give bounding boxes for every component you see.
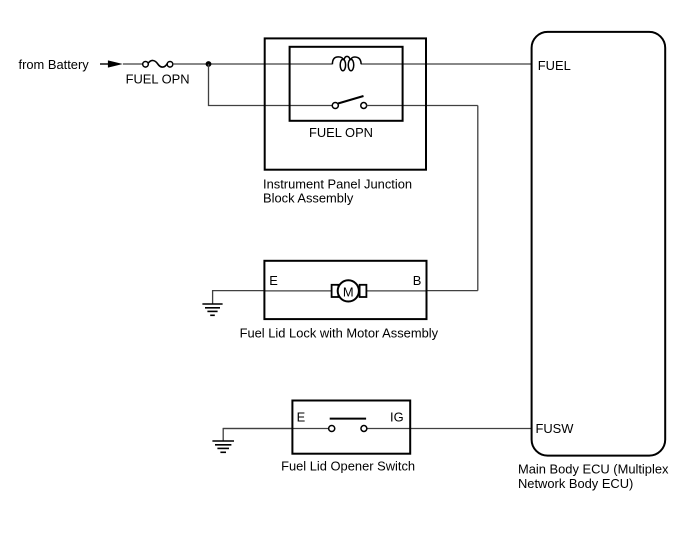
svg-text:B: B: [413, 273, 422, 288]
svg-text:FUEL: FUEL: [538, 58, 571, 73]
battery feed arrow: [100, 60, 123, 67]
relay switch lever: [338, 96, 364, 104]
junction node: [206, 61, 212, 67]
relay inner box: [290, 47, 403, 121]
wire junction branch to relay switch: [209, 64, 333, 106]
wire arrow to fuse: [123, 63, 143, 65]
svg-text:FUEL OPN: FUEL OPN: [126, 71, 190, 86]
main body ECU label: [518, 461, 669, 491]
ground G1: [202, 291, 264, 316]
svg-text:FUSW: FUSW: [536, 421, 575, 436]
relay switch contact left: [332, 102, 338, 108]
relay switch contact right: [361, 103, 367, 109]
relay coil L1: [332, 56, 361, 70]
svg-text:IG: IG: [390, 410, 404, 425]
svg-text:Instrument Panel Junction: Instrument Panel Junction: [263, 176, 412, 191]
wire fuse to relay coil (FUEL net): [173, 63, 333, 65]
wire motor box left to brush: [264, 290, 332, 292]
motor M1: [332, 280, 367, 301]
opener switch bar: [330, 418, 366, 420]
svg-text:M: M: [343, 284, 354, 299]
opener switch contact right: [361, 426, 367, 432]
opener switch contact left: [329, 425, 335, 431]
svg-text:Block Assembly: Block Assembly: [263, 190, 354, 205]
svg-text:FUEL OPN: FUEL OPN: [309, 125, 373, 140]
wire ground to switch contact: [223, 428, 329, 430]
svg-text:E: E: [297, 410, 306, 425]
svg-text:Fuel Lid Opener Switch: Fuel Lid Opener Switch: [281, 458, 415, 473]
fuse FUEL OPN: [143, 60, 173, 67]
svg-text:Main Body ECU (Multiplex: Main Body ECU (Multiplex: [518, 461, 669, 476]
svg-text:Network Body ECU): Network Body ECU): [518, 476, 633, 491]
wire brush to motor box right: [366, 290, 427, 292]
instrument panel junction block outer box: [265, 38, 426, 169]
wire relay coil to ECU pin FUEL: [361, 63, 531, 65]
svg-text:E: E: [269, 273, 278, 288]
instrument panel junction block label: [263, 176, 412, 205]
fuel lid opener switch box: [292, 401, 410, 454]
wire relay switch to corner: [367, 105, 478, 107]
main body ECU box: [532, 32, 666, 456]
svg-text:Fuel Lid Lock with Motor Assem: Fuel Lid Lock with Motor Assembly: [240, 326, 439, 341]
wire corner to motor terminal B: [427, 290, 478, 292]
fuel lid lock motor box: [264, 261, 426, 319]
ground G2: [212, 429, 292, 453]
svg-text:from Battery: from Battery: [19, 57, 90, 72]
wire corner down: [477, 106, 479, 291]
wire switch contact to ECU pin FUSW: [367, 428, 532, 430]
